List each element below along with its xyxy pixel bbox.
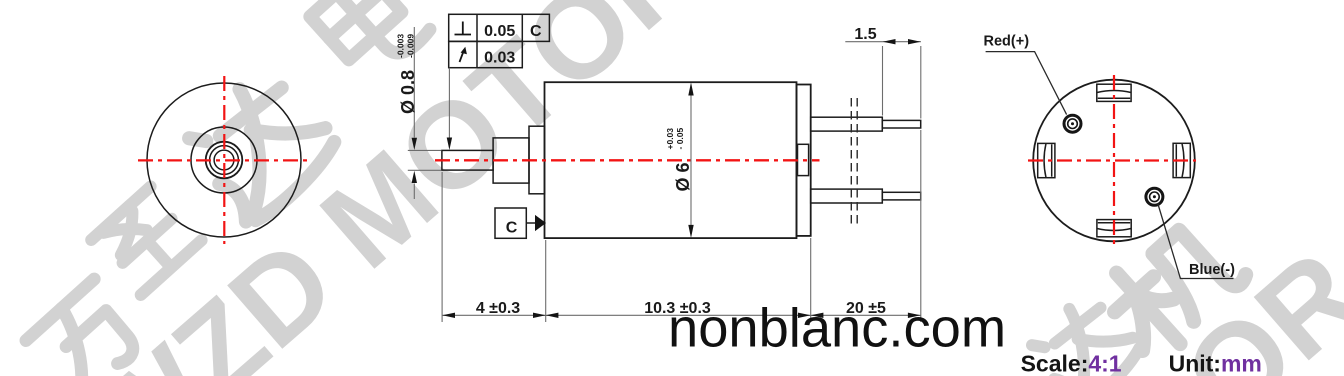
positive terminal eyelet [1064,115,1081,132]
svg-text:C: C [530,23,542,40]
svg-text:C: C [506,220,518,237]
wire break line left [850,98,852,227]
shaft hub small step [493,138,529,183]
svg-text:1.5: 1.5 [854,26,876,43]
upper lead wire insulated part [811,117,883,131]
shaft circle [214,150,234,170]
svg-text:nonblanc.com: nonblanc.com [668,298,1006,359]
svg-text:Unit:mm: Unit:mm [1169,351,1262,376]
red axis centerline overlay (over body) [435,159,820,161]
svg-text:Red(+): Red(+) [984,34,1030,50]
wire break line right [856,98,858,227]
svg-text:Blue(-): Blue(-) [1189,262,1235,278]
svg-text:- 0.05: - 0.05 [675,127,685,149]
watermark char da [177,64,343,229]
rear view outer circle [1033,80,1195,242]
dia 0.8 tolerance text [396,34,416,58]
watermark char ji [1092,209,1250,365]
upper lead wire bare tip [882,120,920,128]
svg-text:4 ±0.3: 4 ±0.3 [476,300,520,317]
rear view horizontal centerline [1028,159,1196,161]
datum C box [495,208,526,238]
svg-text:+0.03: +0.03 [665,128,675,150]
bottom dimension arrows [442,313,920,318]
watermark char wan [23,279,151,376]
watermark char dian [303,0,431,85]
dia 0.8 dimension line and arrows [408,27,441,199]
negative terminal eyelet [1146,188,1163,205]
svg-text:0.03: 0.03 [484,49,515,66]
rear view vertical centerline [1113,75,1115,245]
bearing outer ring [206,142,243,179]
bottom dimension chain line [442,130,921,322]
motor body rectangle [545,82,797,238]
front bearing boss circle [191,127,257,193]
svg-text:Scale:4:1: Scale:4:1 [1021,351,1122,376]
watermark char da 2 [1023,290,1146,376]
dimension 1.5 (bare wire tip) [845,39,921,119]
feature control frame box [449,14,550,67]
circular runout symbol [460,47,467,62]
lower lead wire insulated part [811,189,883,203]
svg-text:Ø 6: Ø 6 [673,162,693,191]
datum leader and filled triangle [526,215,546,231]
end cap bearing holder rect [798,144,809,175]
bottom crimp tab [1097,220,1131,237]
dia 6 tolerance text [665,127,685,149]
lower lead wire bare tip [882,192,920,200]
Red(+) label leader [986,52,1067,115]
svg-text:0.05: 0.05 [484,23,515,40]
perpendicularity symbol [455,22,472,35]
FCF leader line with arrow to shaft [447,68,452,150]
svg-text:-0.003: -0.003 [396,34,406,58]
right crimp tab [1173,143,1190,177]
left crimp tab [1038,143,1055,177]
svg-text:Ø 0.8: Ø 0.8 [398,70,418,114]
top crimp tab [1097,84,1131,101]
Blue(-) label leader [1158,204,1234,279]
vertical centerline [223,76,225,244]
shaft hub large step [529,126,545,194]
bearing inner ring [210,146,239,175]
dia 6 dimension line and arrows [688,82,693,238]
motor front view outer case circle [147,83,301,237]
red axis centerline [435,159,820,161]
horizontal centerline [138,159,309,161]
motor shaft side view [442,150,493,170]
svg-text:-0.009: -0.009 [406,34,416,58]
watermark char zhi [91,185,201,295]
end cap rectangle [797,85,811,236]
